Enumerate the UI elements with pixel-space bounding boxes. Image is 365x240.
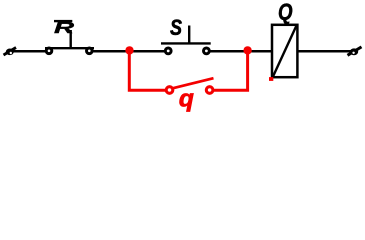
label R(bar) — [54, 20, 75, 37]
pushbutton S (NO make contact) — [161, 26, 211, 54]
node junction 1 — [125, 46, 133, 54]
pushbutton R (NC break contact) — [45, 30, 94, 54]
wire red memory branch right — [214, 52, 248, 90]
svg-text:Q: Q — [278, 0, 293, 25]
wire — [297, 50, 353, 53]
node junction 2 — [243, 46, 251, 54]
relay contact q (NO) — [166, 78, 213, 93]
svg-text:R: R — [54, 20, 75, 37]
relay coil Q — [272, 25, 297, 77]
wire — [209, 50, 272, 53]
wire — [92, 50, 165, 53]
right supply terminal — [348, 47, 362, 55]
wire — [12, 50, 47, 53]
left supply terminal — [4, 48, 17, 56]
red mark at coil corner — [269, 77, 273, 81]
svg-text:S: S — [170, 15, 182, 40]
svg-text:q: q — [179, 86, 194, 113]
wire red memory branch left — [129, 52, 165, 90]
